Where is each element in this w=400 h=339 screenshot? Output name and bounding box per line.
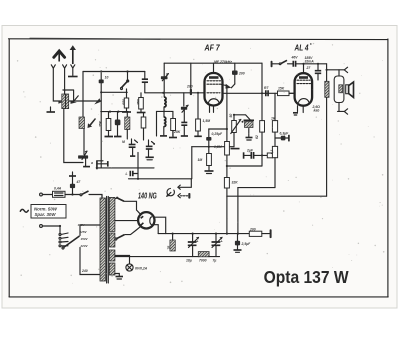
svg-text:0,1: 0,1	[270, 149, 274, 154]
ground heater	[115, 274, 123, 280]
capacitor 47	[69, 172, 81, 195]
transformer primary 2500	[324, 81, 329, 97]
switch S1	[121, 72, 129, 99]
svg-text:25K: 25K	[99, 120, 103, 128]
scan speckle noise	[17, 42, 385, 286]
coil L1	[62, 90, 74, 109]
wire anode vertical	[326, 64, 328, 196]
tube AL4	[295, 73, 313, 106]
node bus a	[192, 233, 194, 235]
ground antenna	[47, 107, 56, 112]
wire grid AF7 down	[226, 89, 228, 197]
wire heater tap	[115, 256, 130, 264]
connector pickup 1	[178, 185, 180, 189]
tone switch	[273, 60, 293, 64]
svg-text:150V: 150V	[81, 237, 89, 241]
node cathode bus 1	[109, 111, 111, 113]
connector clip top	[344, 67, 347, 72]
resistor 32K	[224, 178, 238, 189]
wire osc vertical x262	[261, 63, 263, 120]
terminal pickup bar	[188, 193, 190, 199]
voltage selector	[59, 223, 89, 249]
mains terminal	[40, 193, 43, 196]
resistor mid	[141, 113, 146, 140]
svg-text:32K: 32K	[232, 181, 239, 185]
svg-text:6,3µF: 6,3µF	[280, 132, 290, 136]
border frame	[9, 38, 389, 297]
wire AF7 leads	[210, 106, 214, 113]
variable capacitor tuning	[78, 150, 88, 166]
svg-text:2,5µF: 2,5µF	[241, 242, 252, 246]
node af	[137, 178, 139, 180]
svg-text:125V: 125V	[80, 230, 88, 234]
svg-text:220V: 220V	[80, 244, 89, 248]
svg-text:kab: kab	[314, 109, 320, 113]
wire clip bottom	[338, 110, 345, 112]
wire top bus left	[83, 71, 145, 73]
wire y166	[227, 165, 262, 167]
terminal bar a	[91, 160, 108, 169]
svg-text:AF 7: AF 7	[204, 44, 220, 53]
resistor 1K	[271, 93, 278, 146]
wire L2 to tuning cap	[83, 129, 85, 155]
svg-text:M: M	[122, 140, 125, 144]
resistor 1M	[198, 147, 214, 174]
coil osc2	[160, 107, 167, 136]
coil L2	[79, 117, 85, 129]
svg-text:15K: 15K	[278, 87, 285, 91]
wire AF7 to AL4	[223, 92, 295, 94]
box bandfilter	[157, 111, 173, 136]
antenna A2	[70, 45, 76, 68]
capacitor coupling 10T	[264, 86, 269, 96]
resistor 250	[139, 98, 144, 110]
capacitor elco2	[212, 234, 224, 263]
mains terminal 2	[40, 225, 43, 228]
wire af grid	[192, 146, 234, 179]
svg-text:L: L	[126, 172, 128, 176]
lamp 6V	[126, 264, 148, 271]
wire rectifier out 1	[154, 217, 166, 233]
svg-text:Opta 137 W: Opta 137 W	[264, 267, 349, 287]
capacitor 200 osc	[186, 63, 193, 95]
switch HV tap	[115, 197, 140, 215]
wire avc	[96, 167, 154, 169]
wire y187	[238, 187, 275, 189]
switch mains	[80, 191, 102, 198]
resistor 0,5M	[214, 142, 229, 156]
arrow L1 variable	[58, 96, 78, 104]
wire y196 long	[227, 195, 327, 197]
capacitor 2,5uF	[234, 234, 252, 253]
node bus c	[226, 233, 228, 235]
svg-text:6V/0,2A: 6V/0,2A	[135, 267, 148, 271]
switch mid tap	[115, 227, 140, 240]
wire af line	[137, 153, 139, 179]
capacitor ant coupling	[99, 70, 109, 167]
tone terminal bar	[271, 61, 273, 67]
node x262	[261, 92, 263, 94]
ground resistor 250	[137, 93, 146, 113]
transformer secondary 6V	[109, 250, 115, 261]
node selector	[59, 225, 61, 227]
svg-text:7000: 7000	[199, 259, 207, 263]
node bus j1	[126, 70, 128, 72]
transformer primary	[100, 195, 105, 281]
svg-text:1,5M: 1,5M	[203, 119, 211, 123]
diode det1	[122, 139, 138, 156]
earth terminal	[68, 69, 78, 77]
ground AL4	[293, 113, 298, 115]
volume pot 0,5M	[229, 114, 241, 149]
trimmer arrow T1	[161, 63, 169, 97]
capacitor 2uF	[244, 149, 268, 159]
coil af choke	[234, 115, 254, 140]
wire to pickup corner	[180, 179, 192, 188]
tube AF7	[205, 73, 223, 106]
wire rectifier out 2	[154, 225, 159, 234]
box norm spar	[31, 205, 66, 219]
capacitor 6,3uF	[275, 132, 289, 142]
resistor 1K h	[267, 153, 278, 158]
wire mains 1	[42, 194, 52, 196]
connector pickup 2	[178, 194, 180, 198]
wire af bus	[129, 178, 192, 180]
svg-text:140 NG: 140 NG	[138, 192, 157, 201]
ground tuning cap	[83, 166, 90, 168]
svg-text:Norm. 50W: Norm. 50W	[34, 206, 58, 211]
tube rectifier 140NG	[138, 212, 154, 228]
speaker cone	[346, 82, 354, 97]
wire psu gnd bus	[110, 256, 220, 258]
grid flag AF7	[222, 84, 235, 89]
resistor 25K left	[99, 112, 111, 136]
svg-text:Spar. 30W: Spar. 30W	[35, 212, 57, 217]
svg-text:2µF: 2µF	[246, 149, 254, 153]
node 2uF	[261, 154, 263, 156]
resistor 25K right	[169, 119, 181, 138]
wire x226 down	[226, 196, 228, 233]
svg-text:25K: 25K	[173, 130, 181, 134]
svg-text:32mA: 32mA	[305, 60, 315, 64]
capacitor 0,25uF	[206, 128, 228, 147]
wire antenna left down	[53, 69, 101, 101]
svg-text:200: 200	[238, 72, 245, 76]
choke filter	[167, 233, 175, 252]
svg-text:AL 4: AL 4	[294, 44, 309, 53]
node AL4 top	[302, 63, 304, 65]
resistor 0,1W	[270, 146, 278, 187]
resistor 15K	[278, 87, 290, 96]
wire bandfilter box	[82, 72, 84, 118]
transformer secondary 4V	[109, 263, 115, 275]
wire antenna to coil	[64, 69, 66, 91]
capacitor 27	[315, 63, 321, 80]
coil IF1	[125, 112, 130, 139]
wire cathode bus	[101, 111, 128, 113]
svg-text:MF 270kHz: MF 270kHz	[214, 60, 232, 64]
node cathode bus 2	[117, 111, 119, 113]
fuse 0,4A	[53, 187, 66, 198]
node bus b	[215, 233, 217, 235]
connector clip bottom	[344, 109, 347, 114]
resistor 650	[124, 98, 128, 108]
field coil 7000	[198, 252, 209, 263]
svg-text:0,25µF: 0,25µF	[212, 132, 224, 136]
terminal bar out	[270, 229, 272, 238]
svg-text:76: 76	[167, 246, 171, 250]
wire to clip top	[327, 69, 345, 71]
svg-text:10: 10	[105, 76, 109, 80]
transformer core	[107, 197, 109, 284]
transformer secondary mid	[109, 233, 115, 247]
transformer secondary HV	[109, 197, 115, 231]
wire mains 2	[42, 225, 60, 227]
speaker body	[334, 70, 344, 112]
wire fuse to switch	[65, 194, 80, 196]
svg-text:46V: 46V	[291, 56, 299, 60]
svg-text:50: 50	[229, 114, 233, 118]
svg-text:240: 240	[81, 269, 88, 273]
wire 15K to tube	[289, 92, 295, 94]
node bus d	[237, 233, 239, 235]
node anode	[326, 69, 328, 71]
wire selector to primary	[80, 225, 101, 236]
svg-text:200: 200	[186, 85, 193, 89]
node grid bus	[162, 92, 164, 94]
ground pair left	[105, 136, 122, 138]
wire AL4 grid lead	[303, 64, 305, 73]
capacitor 46V	[291, 56, 299, 67]
antenna A1	[51, 51, 66, 68]
node y166	[226, 165, 228, 167]
resistor 62	[255, 121, 265, 166]
wire coil down to tuning cap	[64, 109, 83, 163]
arrow ant coupling	[94, 98, 101, 104]
trimmer arrow T2	[181, 93, 189, 136]
wire AL4 leads	[298, 106, 304, 113]
wire pickup dashed	[181, 195, 189, 197]
node mains cap	[71, 193, 73, 195]
capacitor 200 anode	[232, 63, 245, 84]
coil osc1	[164, 97, 166, 107]
svg-text:18µ: 18µ	[186, 259, 192, 263]
capacitor padder	[142, 72, 148, 93]
ground resistor 650	[122, 108, 131, 112]
pickup rotary symbol	[166, 188, 174, 196]
wire x237 down	[237, 188, 239, 234]
wire AL4 top	[296, 63, 327, 65]
capacitor elco1	[186, 234, 199, 263]
svg-text:62: 62	[255, 135, 259, 139]
svg-text:7µ: 7µ	[213, 259, 217, 263]
wire selector bottom	[80, 248, 101, 275]
text mains ~	[20, 209, 28, 212]
resistor 1,5M	[194, 92, 210, 137]
capacitor c-left	[115, 112, 121, 136]
svg-text:a: a	[91, 161, 93, 165]
svg-text:0,4A: 0,4A	[54, 187, 62, 191]
wire anode2 tap	[115, 220, 138, 222]
svg-text:0,5M: 0,5M	[214, 145, 222, 149]
resistor 200 out	[249, 228, 270, 237]
wire grid bus	[101, 91, 127, 93]
capacitor L small	[126, 171, 139, 177]
wire B+ bus	[158, 233, 249, 235]
svg-text:1M: 1M	[198, 158, 203, 162]
diode det2	[146, 140, 156, 160]
wire osc top	[164, 62, 262, 64]
arrow L2 variable	[88, 118, 97, 128]
wire AF7 top	[213, 63, 215, 73]
